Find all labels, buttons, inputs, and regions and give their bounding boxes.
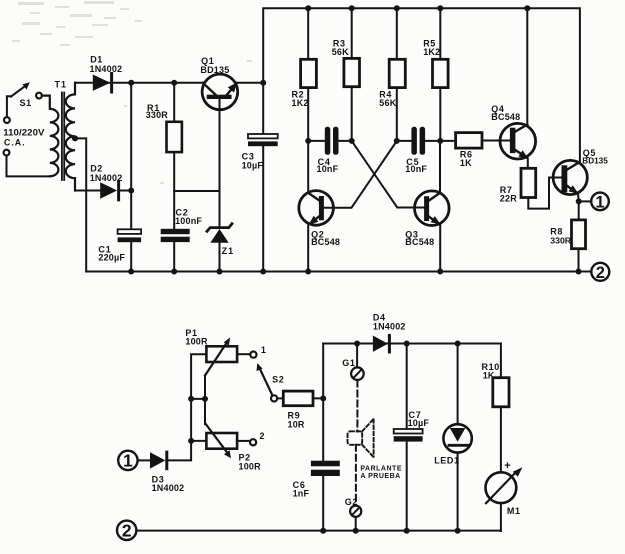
resistor R3 bbox=[344, 8, 360, 141]
node center tap bbox=[72, 135, 78, 141]
node Q2 collector bbox=[305, 138, 311, 144]
svg-text:+: + bbox=[504, 460, 510, 472]
core bbox=[62, 93, 64, 181]
node R4 bottom bbox=[394, 138, 400, 144]
LED LED1 bbox=[443, 344, 471, 532]
primary winding bbox=[42, 96, 59, 177]
svg-text:BC548: BC548 bbox=[491, 112, 520, 122]
resistor R10 bbox=[493, 344, 509, 473]
label C4 bbox=[317, 157, 339, 174]
svg-text:56K: 56K bbox=[379, 98, 396, 108]
svg-text:330R: 330R bbox=[550, 236, 571, 246]
label C6 bbox=[293, 480, 310, 499]
wire cross coupling C5 to Q2 base bbox=[324, 141, 397, 208]
resistor R2 bbox=[301, 8, 317, 193]
node Q3 collector bbox=[437, 138, 443, 144]
node G1 branch bbox=[354, 341, 360, 347]
svg-text:10µF: 10µF bbox=[408, 418, 430, 428]
node rail C2 bbox=[171, 269, 177, 275]
svg-text:220µF: 220µF bbox=[98, 253, 125, 263]
node D2 output bbox=[128, 188, 134, 194]
label C7 bbox=[408, 410, 430, 428]
diode D1 bbox=[93, 74, 112, 93]
node rail LED bbox=[455, 528, 461, 534]
svg-text:1N4002: 1N4002 bbox=[90, 64, 123, 74]
node rail C6 bbox=[320, 528, 326, 534]
potentiometer P1 bbox=[205, 337, 257, 375]
switch S2 bbox=[257, 363, 278, 401]
node D1 output bbox=[128, 80, 134, 86]
label R2 bbox=[292, 90, 309, 109]
svg-text:10µF: 10µF bbox=[242, 161, 264, 171]
speaker under test dashed bbox=[348, 419, 374, 457]
label Q2 bbox=[311, 230, 340, 248]
svg-text:C.A.: C.A. bbox=[4, 137, 26, 147]
transistor Q4 bbox=[500, 8, 536, 168]
label R5 bbox=[423, 39, 440, 57]
terminal circle 2 bottom bbox=[117, 521, 136, 541]
label C5 bbox=[405, 157, 427, 174]
label Q3 bbox=[405, 230, 434, 248]
terminal circle 2 top bbox=[591, 263, 609, 282]
label R9 bbox=[288, 411, 305, 430]
wire wiper tie bbox=[191, 376, 205, 425]
wire Q5 emitter to terminal 1 bbox=[579, 200, 592, 202]
node rail C7 bbox=[404, 528, 410, 534]
wire dashed speaker to G2 bbox=[355, 445, 357, 506]
svg-text:2: 2 bbox=[596, 264, 605, 282]
terminal G1 bbox=[351, 344, 364, 381]
node rail Q2 emitter bbox=[305, 269, 311, 275]
wire R1 bottom to Z1 tie bbox=[174, 190, 219, 192]
label R1 bbox=[146, 103, 169, 120]
svg-text:A PRUEBA: A PRUEBA bbox=[360, 473, 400, 480]
svg-text:BC548: BC548 bbox=[311, 237, 340, 247]
potentiometer P2 bbox=[191, 424, 256, 458]
node R3 bottom bbox=[349, 138, 355, 144]
svg-text:1: 1 bbox=[123, 451, 133, 471]
wire input bottom to transformer primary bbox=[7, 156, 49, 177]
node R1 top bbox=[171, 80, 177, 86]
label D3 bbox=[152, 474, 185, 493]
svg-text:1K: 1K bbox=[483, 371, 495, 381]
svg-text:M1: M1 bbox=[507, 506, 521, 516]
wire ground rail top section bbox=[86, 271, 591, 273]
svg-text:1N4002: 1N4002 bbox=[152, 483, 185, 493]
terminal circle 1 bottom bbox=[118, 451, 137, 471]
node LED branch bbox=[455, 341, 461, 347]
svg-text:1K2: 1K2 bbox=[423, 47, 440, 57]
svg-text:2: 2 bbox=[122, 521, 132, 541]
wire secondary top to D1 and Q1 bbox=[75, 82, 203, 84]
label C3 bbox=[242, 152, 264, 171]
svg-text:LED1: LED1 bbox=[434, 456, 459, 466]
node rail C3 bbox=[260, 269, 266, 275]
label D4 bbox=[373, 313, 406, 332]
node rail R3 bbox=[349, 5, 355, 11]
svg-text:56K: 56K bbox=[332, 47, 349, 57]
label Q1 bbox=[200, 56, 229, 75]
terminal circle 1 top bbox=[591, 193, 609, 212]
diode D4 bbox=[373, 335, 390, 352]
zener Z1 bbox=[207, 224, 232, 272]
label R6 bbox=[460, 150, 473, 168]
diode D3 bbox=[138, 354, 207, 469]
node rail C1 bbox=[128, 269, 134, 275]
wire center tap down to ground rail bbox=[75, 138, 86, 271]
svg-text:330R: 330R bbox=[146, 110, 169, 120]
node C7 branch bbox=[404, 341, 410, 347]
svg-text:1K: 1K bbox=[460, 158, 472, 168]
wire left side of output network bbox=[322, 344, 324, 532]
wire top supply rail bbox=[263, 8, 580, 162]
svg-text:100R: 100R bbox=[185, 337, 208, 347]
node rail Q4 collector bbox=[524, 5, 530, 11]
svg-text:S1: S1 bbox=[20, 98, 32, 108]
svg-text:T1: T1 bbox=[55, 80, 68, 90]
label R7 bbox=[500, 185, 517, 204]
capacitor C7 bbox=[394, 344, 423, 532]
svg-text:1: 1 bbox=[261, 345, 266, 355]
wire Q1 emitter to C3 node bbox=[236, 82, 263, 84]
svg-text:2: 2 bbox=[260, 431, 265, 441]
svg-text:Z1: Z1 bbox=[222, 246, 235, 256]
node P branch top bbox=[188, 396, 194, 402]
resistor R1 bbox=[167, 83, 182, 229]
label C1 bbox=[98, 244, 125, 262]
svg-text:22R: 22R bbox=[500, 193, 517, 203]
secondary winding bbox=[66, 83, 75, 191]
wire ground rail bottom section bbox=[136, 530, 501, 532]
node rail R8 bbox=[576, 269, 582, 275]
node Q5 emitter bbox=[576, 198, 582, 204]
svg-text:100R: 100R bbox=[239, 461, 262, 471]
svg-text:1K2: 1K2 bbox=[292, 98, 309, 108]
svg-text:G1: G1 bbox=[342, 358, 355, 368]
node rail R2 bbox=[305, 5, 311, 11]
svg-text:PARLANTE: PARLANTE bbox=[360, 466, 402, 473]
transistor Q3 bbox=[415, 141, 450, 272]
node rail Z1 bbox=[217, 269, 223, 275]
capacitor C6 bbox=[311, 461, 340, 476]
diode D2 bbox=[100, 181, 131, 199]
wire secondary bottom to D2 bbox=[75, 190, 100, 192]
transistor Q1 bbox=[202, 74, 238, 110]
label C2 bbox=[175, 208, 202, 227]
node rail G2 bbox=[353, 528, 359, 534]
switch S1 bbox=[4, 82, 42, 123]
resistor R5 bbox=[433, 8, 449, 141]
label PARLANTE A PRUEBA bbox=[360, 466, 402, 481]
label R3 bbox=[332, 39, 349, 57]
transistor Q2 bbox=[299, 191, 334, 272]
svg-text:BD135: BD135 bbox=[582, 156, 608, 165]
label D2 bbox=[90, 164, 123, 183]
resistor R6 bbox=[440, 133, 509, 149]
label P1 bbox=[185, 328, 208, 347]
label 110/220V C.A. bbox=[3, 127, 45, 147]
node wiper tie bbox=[202, 396, 208, 402]
capacitor C2 bbox=[161, 229, 190, 272]
label D1 bbox=[90, 55, 123, 74]
wire Q1 base to zener bbox=[219, 99, 221, 227]
label Q5 bbox=[582, 148, 608, 165]
capacitor C5 bbox=[397, 127, 441, 155]
node rail R4 bbox=[394, 5, 400, 11]
node P branch bottom bbox=[188, 438, 194, 444]
svg-text:S2: S2 bbox=[272, 374, 284, 384]
label R10 bbox=[482, 362, 500, 381]
resistor R4 bbox=[389, 8, 405, 141]
label R8 bbox=[550, 227, 571, 246]
node R9 out bbox=[320, 395, 326, 401]
svg-text:10R: 10R bbox=[288, 419, 305, 429]
svg-text:100nF: 100nF bbox=[175, 216, 202, 226]
svg-text:BC548: BC548 bbox=[405, 237, 434, 247]
wire dashed G1 to speaker bbox=[356, 381, 358, 432]
svg-text:10nF: 10nF bbox=[317, 164, 339, 174]
resistor R7 bbox=[521, 168, 562, 208]
svg-text:1: 1 bbox=[595, 193, 604, 211]
svg-text:G2: G2 bbox=[345, 497, 358, 507]
transformer T1 bbox=[42, 83, 75, 191]
label R4 bbox=[379, 90, 396, 109]
wire cross coupling C4 to Q3 base bbox=[352, 141, 424, 208]
node rail Q3 emitter bbox=[437, 269, 443, 275]
transistor Q5 bbox=[553, 160, 587, 201]
meter M1 bbox=[486, 467, 523, 531]
capacitor C3 bbox=[248, 83, 278, 272]
resistor R8 bbox=[572, 201, 586, 271]
svg-text:BD135: BD135 bbox=[200, 65, 229, 75]
label Q4 bbox=[491, 104, 520, 122]
svg-text:1N4002: 1N4002 bbox=[373, 321, 406, 331]
wire top rail bottom section bbox=[323, 343, 501, 345]
node Q1 emitter / C3 bbox=[260, 80, 266, 86]
node rail R5 bbox=[437, 5, 443, 11]
label P2 bbox=[239, 453, 262, 472]
wire D1/D2 junction vertical bbox=[130, 83, 132, 229]
svg-text:10nF: 10nF bbox=[405, 164, 427, 174]
capacitor C1 bbox=[118, 229, 142, 271]
svg-text:1N4002: 1N4002 bbox=[90, 173, 123, 183]
resistor R9 bbox=[277, 391, 323, 406]
terminal G2 bbox=[350, 506, 361, 531]
svg-text:1nF: 1nF bbox=[293, 489, 310, 499]
capacitor C4 bbox=[308, 127, 352, 155]
input lower terminal bbox=[4, 150, 10, 156]
